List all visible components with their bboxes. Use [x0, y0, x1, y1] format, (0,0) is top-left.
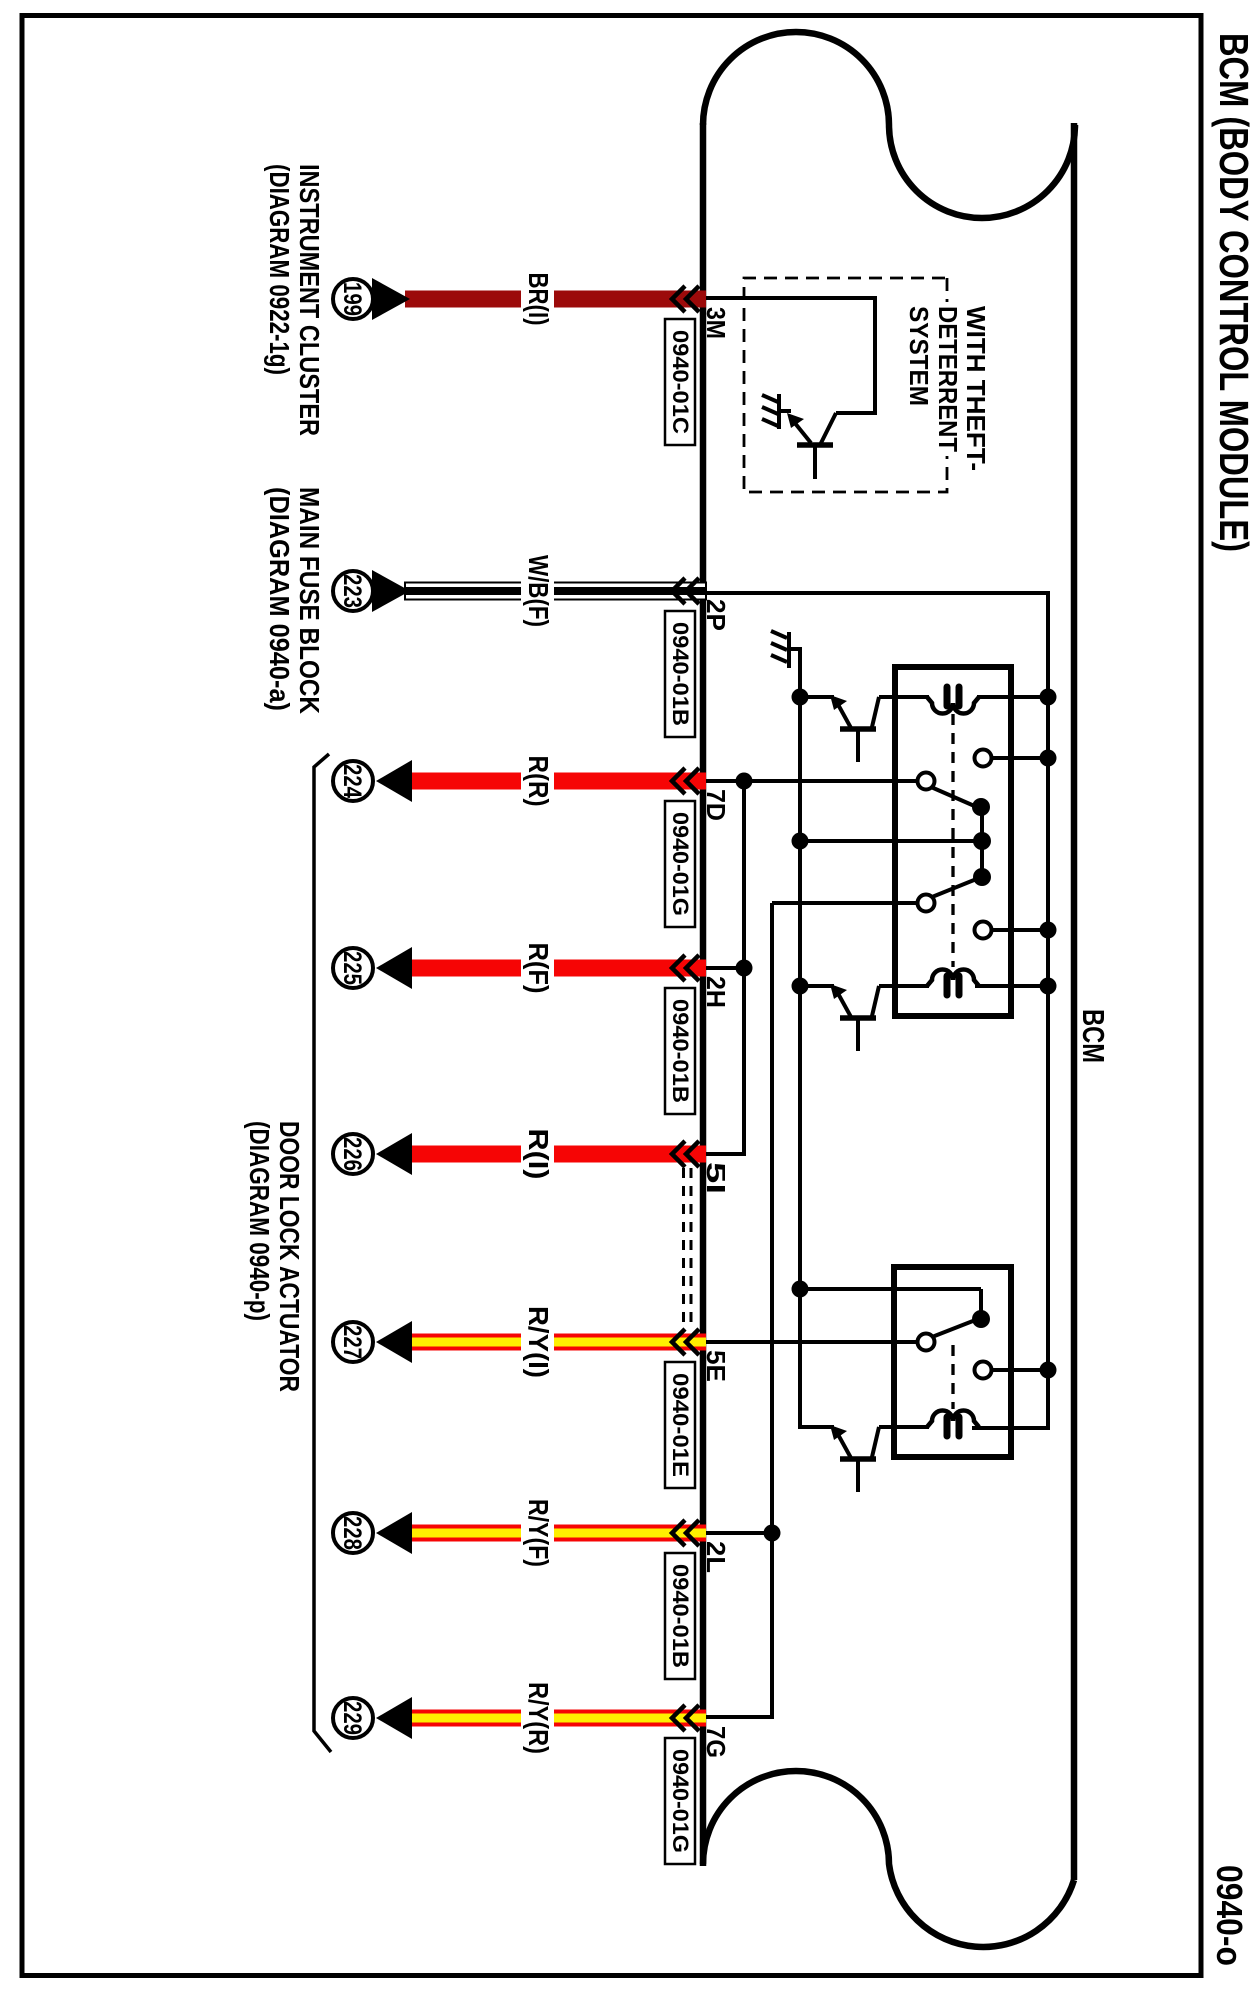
- relay K2 box: [894, 1267, 1011, 1457]
- theft hatch stroke 1: [762, 395, 778, 402]
- transistor Q3 emitter lead: [800, 1425, 834, 1429]
- svg-text:223: 223: [338, 574, 366, 608]
- wire pin 5E riser: [706, 1340, 918, 1344]
- ground bus horizontal: [798, 651, 802, 1427]
- transistor Q4 emitter diagonal: [790, 417, 811, 443]
- svg-text:227: 227: [338, 1325, 366, 1359]
- relay K2 dashed link: [951, 1345, 954, 1409]
- junction dot 7D: [736, 773, 753, 790]
- in-line connector chevrons on R(I): [672, 1141, 699, 1167]
- relay K1 dashed link: [951, 714, 954, 967]
- svg-text:BCM: BCM: [1076, 1009, 1111, 1063]
- relay K2 fixed contact to power: [992, 1368, 1048, 1372]
- junction dot Q1 emitter-ground: [792, 689, 809, 706]
- relay K1 contact 1 arm: [931, 787, 979, 808]
- svg-text:R(I): R(I): [523, 1129, 554, 1180]
- svg-text:R/Y(I): R/Y(I): [523, 1306, 554, 1378]
- wire pin 7G riser: [706, 1715, 774, 1719]
- relay K1 box: [895, 667, 1011, 1016]
- svg-text:DETERRENT: DETERRENT: [933, 306, 963, 452]
- arrow connector 227: [376, 1321, 412, 1363]
- wire R(F) to pin 2H: [409, 960, 706, 977]
- transistor Q2 collector diagonal: [872, 986, 879, 1016]
- svg-text:(DIAGRAM 0922-1g): (DIAGRAM 0922-1g): [264, 164, 295, 375]
- svg-text:R/Y(F): R/Y(F): [523, 1499, 554, 1567]
- svg-text:3M: 3M: [701, 307, 731, 339]
- transistor Q3 emitter diagonal: [835, 1429, 851, 1458]
- svg-text:0940-01E: 0940-01E: [668, 1373, 693, 1477]
- wire label R(F): [521, 938, 554, 999]
- connector circle 223: [333, 571, 373, 611]
- in-line connector chevrons on BR(I): [672, 286, 699, 312]
- transistor Q1 emitter arrowhead: [830, 695, 847, 710]
- connector circle 226: [333, 1134, 373, 1174]
- junction dot K2 fixed-power: [1040, 1362, 1057, 1379]
- BCM box bottom edge: [700, 123, 707, 1866]
- reference box 0940-01G on R/Y(R): [665, 1738, 695, 1864]
- ground bus riser to Q3 emitter: [798, 1425, 834, 1429]
- junction dot 2L: [764, 1525, 781, 1542]
- transistor Q1 base bar: [840, 726, 876, 732]
- svg-text:225: 225: [338, 951, 366, 985]
- svg-text:7D: 7D: [701, 789, 731, 821]
- wire 3M to theft transistor collector (vertical): [706, 296, 875, 300]
- svg-text:(DIAGRAM 0940-p): (DIAGRAM 0940-p): [244, 1121, 275, 1321]
- svg-text:2L: 2L: [701, 1541, 731, 1573]
- relay K1 fixed contact 2: [975, 922, 992, 939]
- reference box 0940-01B on R(F): [665, 988, 695, 1114]
- transistor Q4 base bar: [797, 442, 833, 448]
- in-line connector chevrons on R/Y(I): [672, 1329, 699, 1355]
- connector circle 229: [333, 1698, 373, 1738]
- label SYSTEM: [907, 302, 931, 410]
- relay K1 fixed contact 1: [975, 750, 992, 767]
- relay K1 contact 2 common: [918, 895, 935, 912]
- transistor Q3 emitter arrowhead: [830, 1425, 847, 1440]
- transistor Q4 base lead: [813, 446, 817, 479]
- connector circle 225: [333, 948, 373, 988]
- svg-text:WITH THEFT-: WITH THEFT-: [961, 306, 991, 471]
- arrow connector 229: [376, 1697, 412, 1739]
- brace for door lock actuator group: [314, 754, 331, 1752]
- theft ground stub: [779, 409, 791, 413]
- transistor Q1 emitter lead: [800, 695, 834, 699]
- transistor Q3 base bar: [840, 1456, 876, 1462]
- connector circle 228: [333, 1513, 373, 1553]
- relay K1 coil A: [927, 697, 979, 714]
- label WITH THEFT-: [964, 302, 988, 475]
- power bus drop to relay 2 coil: [972, 1426, 1050, 1430]
- svg-text:0940-01G: 0940-01G: [668, 1749, 693, 1853]
- svg-text:2H: 2H: [701, 976, 731, 1008]
- wire label W/B(F): [521, 550, 554, 632]
- arrow connector 199: [372, 278, 410, 320]
- ground hatch stroke 1: [771, 631, 787, 638]
- wire label R(R): [521, 751, 554, 812]
- relay K2 armature to ground: [800, 1287, 981, 1291]
- svg-text:(DIAGRAM 0940-a): (DIAGRAM 0940-a): [264, 487, 295, 711]
- junction dot 2H: [736, 960, 753, 977]
- relay K1 fixed contact 1 to power: [992, 756, 1048, 760]
- relay K2 armature link: [979, 1289, 983, 1319]
- ground hatch stroke 3: [771, 655, 787, 662]
- svg-text:W/B(F): W/B(F): [523, 555, 554, 627]
- svg-text:BCM (BODY CONTROL MODULE): BCM (BODY CONTROL MODULE): [1211, 33, 1255, 552]
- junction dot F2-power: [1040, 922, 1057, 939]
- in-line connector chevrons on W/B(F): [672, 578, 699, 604]
- relay K1 coil B: [927, 970, 979, 987]
- theft hatch stroke 2: [762, 407, 778, 414]
- svg-text:5E: 5E: [701, 1350, 731, 1382]
- relay K1 fixed contact 2 to power: [992, 928, 1048, 932]
- reference box 0940-01B on W/B(F): [665, 611, 695, 737]
- theft hatch spine: [777, 394, 781, 429]
- wire theft collector horizontal: [873, 296, 877, 413]
- svg-text:MAIN FUSE BLOCK: MAIN FUSE BLOCK: [294, 487, 325, 714]
- BCM box top edge: [1071, 123, 1078, 1880]
- wire label R/Y(R): [521, 1677, 554, 1759]
- reference box 0940-01E on R/Y(I): [665, 1362, 695, 1488]
- arrow connector 226: [376, 1133, 412, 1175]
- connector circle 199: [333, 279, 373, 319]
- svg-text:2P: 2P: [701, 599, 731, 631]
- junction dot Q2 emitter-ground: [792, 978, 809, 995]
- transistor Q4 emitter arrowhead: [787, 413, 804, 428]
- relay K1 armature dot A1: [972, 798, 990, 816]
- ground hatch stub: [789, 647, 802, 651]
- wire W/B(F) to pin 2P: [405, 583, 706, 600]
- transistor Q2 base bar: [840, 1015, 876, 1021]
- theft hatch stroke 3: [762, 419, 778, 426]
- wire pin 5I riser: [706, 1152, 746, 1156]
- BCM box left S-curve end: [703, 32, 1075, 218]
- svg-text:229: 229: [338, 1701, 366, 1735]
- wire pin 2H riser: [706, 966, 744, 970]
- junction dot power-coilB: [1040, 978, 1057, 995]
- ground hatch stroke 2: [771, 643, 787, 650]
- relay K1 contact 1 common: [918, 773, 935, 790]
- junction dot armature-ground: [792, 833, 809, 850]
- relay K2 coil: [927, 1411, 979, 1428]
- ground hatch spine: [787, 632, 791, 668]
- relay K1 coil B to Q2 collector: [879, 984, 929, 988]
- relay K1 armature to ground: [800, 839, 982, 843]
- junction dot K2 armature-ground: [792, 1281, 809, 1298]
- reference box 0940-01C on BR(I): [665, 319, 695, 445]
- svg-text:5I: 5I: [701, 1162, 731, 1194]
- svg-text:R(F): R(F): [523, 943, 554, 994]
- wire relay1 contact2 drop: [772, 901, 918, 905]
- theft-deterrent dashed box: [744, 278, 947, 492]
- relay K1 coil B feed: [975, 984, 1050, 988]
- relay K1 contact 2 arm: [932, 878, 979, 897]
- svg-text:0940-01C: 0940-01C: [668, 330, 693, 434]
- relay K1 coil A to Q1 collector: [879, 695, 929, 699]
- svg-text:7G: 7G: [701, 1726, 731, 1758]
- wire R/Y(F) to pin 2L: [409, 1525, 706, 1542]
- in-line connector chevrons on R(F): [672, 955, 699, 981]
- wire R(I) to pin 5I: [409, 1146, 706, 1163]
- transistor Q1 collector diagonal: [872, 697, 879, 727]
- reference box 0940-01B on R/Y(F): [665, 1553, 695, 1679]
- transistor Q4 collector diagonal: [820, 413, 836, 445]
- svg-text:INSTRUMENT CLUSTER: INSTRUMENT CLUSTER: [294, 164, 325, 436]
- relay K1 coil A feed: [977, 695, 1050, 699]
- svg-text:0940-01B: 0940-01B: [668, 1564, 693, 1668]
- svg-text:R/Y(R): R/Y(R): [523, 1682, 554, 1754]
- dashed connector link 5I-5E line 2: [682, 1168, 685, 1330]
- arrow connector 224: [376, 760, 412, 802]
- arrow connector 228: [376, 1512, 412, 1554]
- transistor Q1 emitter diagonal: [835, 699, 851, 728]
- wire label R/Y(I): [521, 1301, 554, 1383]
- wire pin 7D riser: [706, 779, 918, 783]
- in-line connector chevrons on R(R): [672, 768, 699, 794]
- BCM box right S-curve end: [703, 1771, 1074, 1947]
- transistor Q3 collector diagonal: [872, 1427, 879, 1457]
- wire link 7D-2H-5I: [742, 781, 746, 1154]
- wire label BR(I): [521, 268, 554, 331]
- svg-text:0940-01B: 0940-01B: [668, 999, 693, 1103]
- arrow connector 225: [376, 947, 412, 989]
- relay K2 contact common: [918, 1334, 935, 1351]
- svg-text:R(R): R(R): [523, 756, 554, 807]
- junction dot F1-power: [1040, 750, 1057, 767]
- arrow connector 223: [372, 570, 410, 612]
- svg-text:SYSTEM: SYSTEM: [904, 306, 934, 406]
- svg-text:0940-01G: 0940-01G: [668, 812, 693, 916]
- relay K1 armature link: [980, 807, 984, 877]
- transistor Q1 base lead: [856, 730, 860, 762]
- wire link to 2L and 7G: [770, 903, 774, 1717]
- wire theft collector jog: [836, 411, 877, 415]
- relay K1 armature dot A2: [973, 832, 991, 850]
- wire R(R) to pin 7D: [409, 773, 706, 790]
- junction dot power-coilA: [1040, 689, 1057, 706]
- reference box 0940-01G on R(R): [665, 801, 695, 927]
- relay K2 contact arm: [932, 1319, 978, 1337]
- wire R/Y(R) to pin 7G: [409, 1710, 706, 1727]
- svg-text:0940-01B: 0940-01B: [668, 622, 693, 726]
- transistor Q2 emitter diagonal: [835, 988, 851, 1017]
- wire label R(I): [521, 1124, 554, 1185]
- transistor Q2 emitter lead: [800, 984, 834, 988]
- transistor Q2 base lead: [856, 1019, 860, 1051]
- svg-text:0940-o: 0940-o: [1209, 1865, 1250, 1966]
- relay K2 armature dot: [972, 1310, 990, 1328]
- svg-text:BR(I): BR(I): [523, 273, 554, 326]
- wire label R/Y(F): [521, 1494, 554, 1572]
- wire R/Y(I) to pin 5E: [409, 1334, 706, 1351]
- connector circle 224: [333, 761, 373, 801]
- label DETERRENT: [936, 302, 960, 456]
- svg-text:199: 199: [338, 282, 366, 316]
- transistor Q3 base lead: [856, 1460, 860, 1492]
- relay K2 coil to Q3 collector: [879, 1425, 929, 1429]
- svg-text:DOOR LOCK ACTUATOR: DOOR LOCK ACTUATOR: [274, 1121, 305, 1392]
- transistor Q2 emitter arrowhead: [830, 984, 847, 999]
- relay K2 fixed contact: [975, 1362, 992, 1379]
- in-line connector chevrons on R/Y(R): [672, 1705, 699, 1731]
- svg-text:226: 226: [338, 1137, 366, 1171]
- power bus horizontal: [1046, 593, 1050, 1428]
- svg-text:228: 228: [338, 1516, 366, 1550]
- wire pin 2L riser: [706, 1531, 772, 1535]
- relay K1 armature dot A3: [973, 868, 991, 886]
- svg-text:224: 224: [338, 764, 366, 798]
- power bus from pin 2P: [703, 591, 1050, 595]
- dashed connector link 5I-5E line 1: [690, 1168, 693, 1330]
- connector circle 227: [333, 1322, 373, 1362]
- in-line connector chevrons on R/Y(F): [672, 1520, 699, 1546]
- wire BR(I) to pin 3M: [405, 291, 706, 308]
